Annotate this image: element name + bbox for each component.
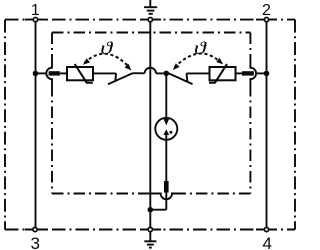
wire: right switch to varistor MOV2 (186, 72, 209, 74)
GDT top electrode arrow (163, 119, 169, 126)
wire: terminal 1 to terminal 3 (left vertical) (35, 22, 37, 227)
junction node at bottom jumper (148, 207, 154, 213)
inner enclosure left hop over wire (46, 62, 52, 85)
outer boundary bottom (5, 229, 295, 231)
GDT bottom electrode arrow (163, 129, 169, 135)
varistor MOV1 diagonal stroke (75, 64, 93, 83)
outer boundary left (4, 20, 6, 230)
GDT bottom electrode stem (165, 135, 167, 141)
outer boundary top (5, 19, 295, 21)
svg-text:4: 4 (262, 234, 271, 250)
inner enclosure bottom hop under wire (146, 194, 183, 200)
varistor MOV2 diagonal stroke (209, 64, 227, 83)
svg-text:1: 1 (31, 2, 40, 19)
inner enclosure right (upper) (249, 33, 251, 63)
terminal 1 (33, 17, 37, 21)
inner enclosure bottom (left part) (52, 193, 146, 195)
wire hop over center conductor (145, 68, 156, 74)
right arc arrowhead to varistor (216, 58, 223, 65)
outer boundary right (294, 20, 296, 230)
inner enclosure right (lower) (249, 85, 251, 194)
wire solid underlay at terminal 4 (256, 229, 277, 231)
disconnector cartridge on GDT branch (filled) (164, 181, 169, 193)
left arc arrowhead to switch (125, 64, 132, 71)
junction node on terminal-1 conductor (33, 71, 39, 77)
wire solid underlay at top earth terminal (140, 19, 161, 21)
wire solid underlay at bottom earth terminal (140, 229, 161, 231)
inner enclosure left (upper) (51, 33, 53, 63)
thermal disconnector (right, filled) (242, 71, 254, 75)
top earth terminal (148, 17, 152, 21)
svg-text:2: 2 (262, 2, 271, 19)
terminal 2 (264, 17, 268, 21)
wire: node A down to gas discharge tube F1 (165, 73, 167, 209)
GDT gas-filled indicator dot (169, 131, 172, 134)
wire: varistor MOV1 to left switch contact (93, 72, 116, 74)
terminal 3 (33, 227, 37, 231)
wire: node L1 to left varistor branch (36, 72, 47, 74)
wire: left disconnector to varistor MOV1 (60, 72, 67, 74)
gas discharge tube F1 body (155, 118, 177, 140)
bottom earth symbol stub (149, 232, 151, 241)
bottom earth terminal (148, 227, 152, 231)
thermal disconnector (left, filled) (49, 71, 60, 75)
left arc arrowhead to varistor (83, 58, 90, 65)
right switch blade (169, 73, 193, 84)
left switch blade (108, 73, 133, 84)
wire: terminal 2 to terminal 4 (right vertical) (266, 22, 268, 227)
top earth symbol stub (149, 0, 151, 7)
wire solid underlay at terminal 2 (256, 19, 277, 21)
svg-text:3: 3 (30, 234, 39, 250)
terminal 4 (264, 227, 268, 231)
right arc arrowhead to switch (173, 63, 180, 70)
left switch fixed contact stub (114, 73, 117, 81)
wire: top earth terminal to bottom earth terminal (center vertical) (149, 22, 151, 227)
bottom earth symbol bars (144, 240, 156, 242)
wire: right disconnector to node L2 (256, 72, 267, 74)
varistor MOV1 body (67, 67, 93, 80)
varistor MOV2 body (210, 67, 236, 80)
top earth symbol bars (144, 6, 157, 8)
GDT top electrode stem (165, 117, 167, 120)
inner enclosure left (lower) (51, 85, 53, 194)
junction node on terminal-2 conductor (264, 71, 270, 77)
thermal monitoring arc theta (left) (85, 54, 130, 68)
thermal monitoring arc theta (right) (175, 54, 221, 68)
inner enclosure top (52, 32, 250, 34)
inner enclosure bottom (right part) (183, 193, 250, 195)
wire: center hop to node A (156, 72, 166, 74)
wire solid underlay at terminal 3 (25, 229, 46, 231)
svg-text:ϑ: ϑ (100, 38, 114, 58)
junction node A (GDT branch tap) (164, 71, 170, 77)
svg-text:ϑ: ϑ (194, 38, 208, 58)
inner enclosure right hop over wire (250, 62, 256, 85)
right switch fixed contact stub (186, 73, 189, 81)
wire: bottom jumper from center conductor to GDT branch (150, 209, 166, 211)
wire: varistor MOV2 to right disconnector (236, 72, 243, 74)
wire: left switch to center hop (133, 72, 145, 74)
wire solid underlay at terminal 1 (25, 19, 46, 21)
